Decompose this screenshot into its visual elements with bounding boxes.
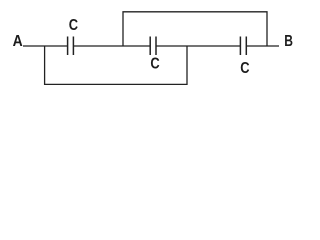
wire: bottom branch from junction before C1 down, across, up to junction after C2 <box>45 46 187 84</box>
wire: node A to capacitor C1 left plate <box>23 45 68 47</box>
capacitor C1 (left, label above) plates <box>68 37 74 56</box>
wire: capacitor C1 right plate to capacitor C2 left plate <box>73 45 150 47</box>
svg-text:C: C <box>240 60 249 77</box>
wire: capacitor C2 right plate to capacitor C3 left plate <box>156 45 240 47</box>
capacitor C2 (middle, label below) plates <box>150 37 156 56</box>
svg-text:C: C <box>150 56 159 73</box>
svg-text:A: A <box>13 33 23 50</box>
wire: top branch from junction after C1 up, across, down to junction after C3 <box>123 12 267 46</box>
wire: capacitor C3 right plate to node B <box>246 45 279 47</box>
svg-text:B: B <box>284 31 293 49</box>
svg-text:C: C <box>69 17 78 34</box>
capacitor C3 (right, label below) plates <box>240 37 246 56</box>
